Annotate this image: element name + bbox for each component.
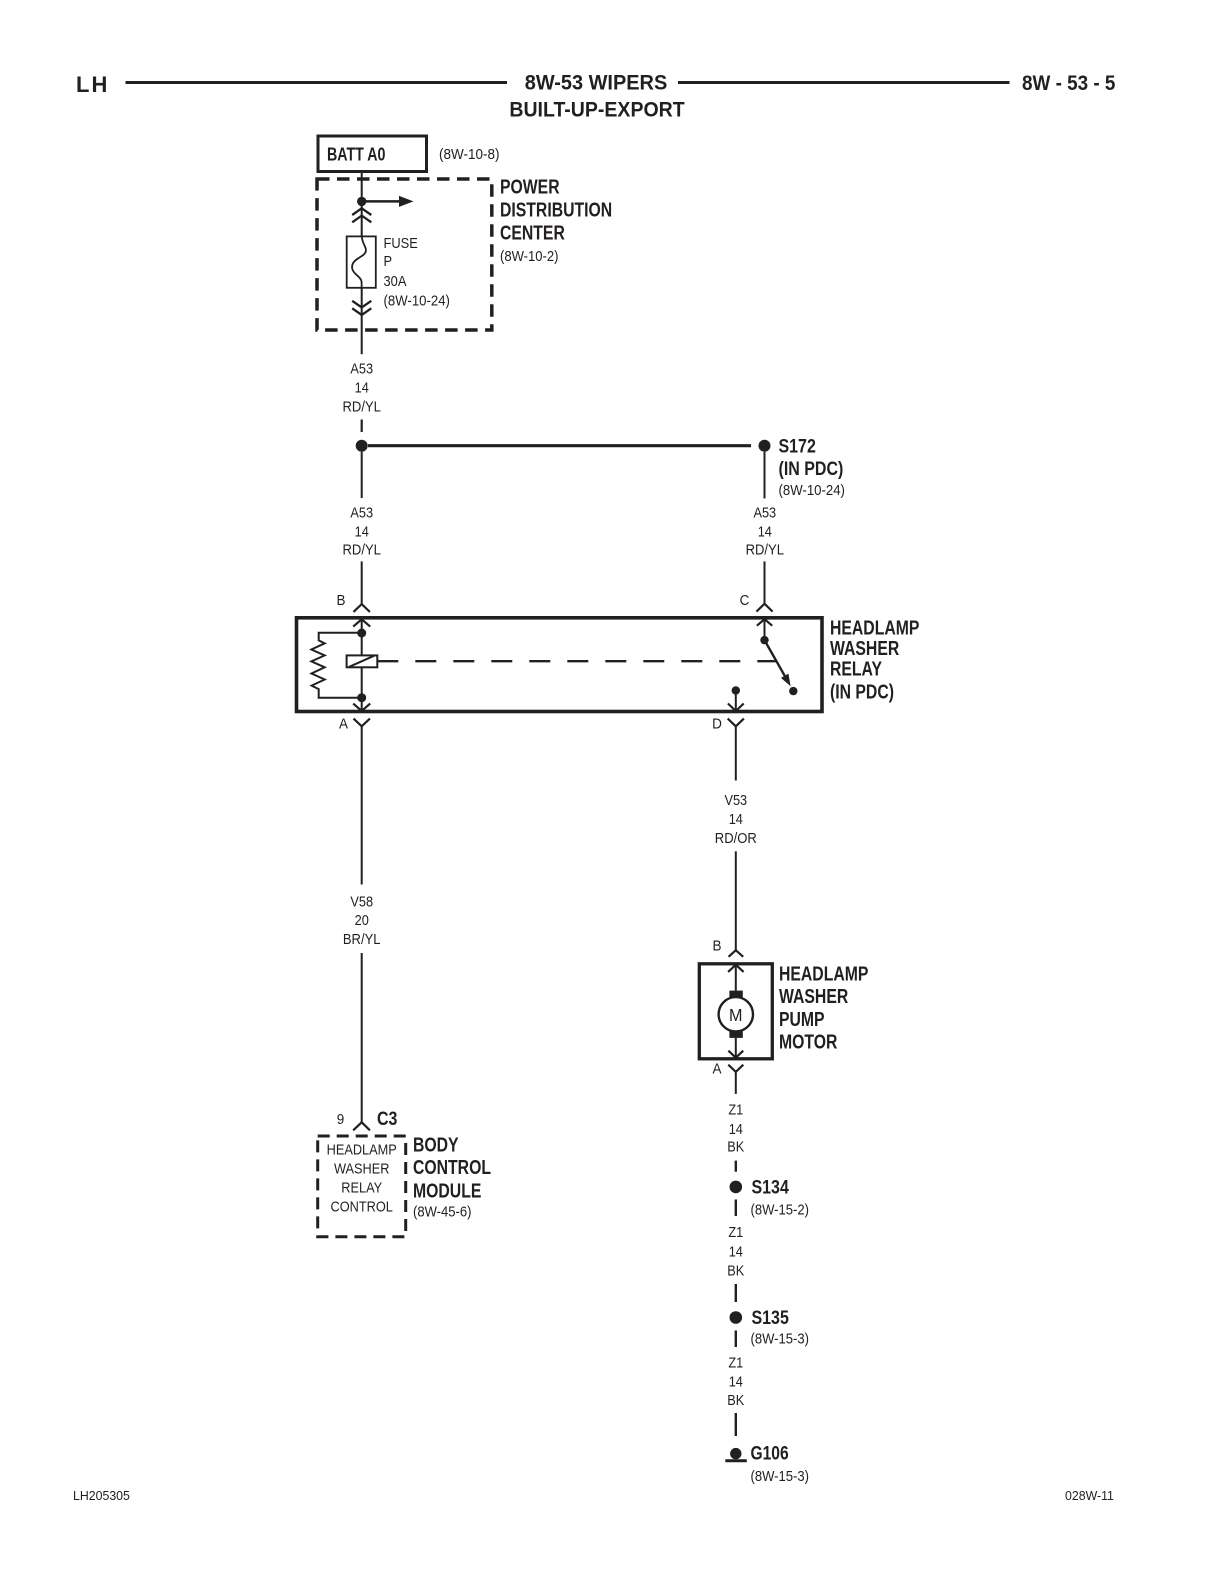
title page number 8W - 53 - 5 — [1022, 72, 1115, 95]
svg-text:HEADLAMP: HEADLAMP — [327, 1140, 397, 1157]
svg-text:(8W-15-3): (8W-15-3) — [751, 1467, 809, 1484]
motor pin A exit arrow — [728, 1038, 743, 1059]
svg-text:S135: S135 — [752, 1307, 789, 1329]
splice S172 labels — [779, 435, 845, 498]
relay pin A exit arrow — [353, 698, 370, 712]
svg-text:8W-53 WIPERS: 8W-53 WIPERS — [525, 71, 668, 95]
wire label A53 14 RD/YL (right) — [746, 504, 785, 558]
svg-text:FUSE: FUSE — [384, 234, 418, 251]
wire BATT A0 to fuse — [361, 172, 363, 237]
wire right drop from S172 — [764, 452, 766, 499]
wire stub below S135 — [735, 1331, 737, 1348]
svg-text:8W - 53 - 5: 8W - 53 - 5 — [1022, 72, 1115, 95]
svg-text:D: D — [712, 716, 722, 733]
wire label A53 14 RD/YL (left) — [342, 504, 381, 558]
svg-text:14: 14 — [729, 1243, 743, 1260]
headlamp washer pump motor box — [699, 964, 772, 1059]
wire to relay pin C — [764, 561, 766, 603]
svg-text:MOTOR: MOTOR — [779, 1030, 837, 1054]
headlamp washer relay box — [297, 618, 823, 712]
BCM name label — [413, 1132, 491, 1220]
wire to relay pin B — [361, 561, 363, 604]
svg-text:BODY: BODY — [413, 1132, 459, 1156]
svg-text:RD/YL: RD/YL — [746, 540, 785, 557]
wire motor A down — [735, 1072, 737, 1094]
svg-text:C: C — [740, 592, 750, 609]
svg-text:C3: C3 — [377, 1108, 398, 1130]
svg-text:RD/OR: RD/OR — [715, 829, 757, 846]
svg-text:S134: S134 — [752, 1176, 789, 1198]
svg-text:Z1: Z1 — [728, 1101, 743, 1118]
svg-text:(8W-15-3): (8W-15-3) — [751, 1330, 809, 1347]
svg-text:(8W-45-6): (8W-45-6) — [413, 1203, 471, 1220]
wire label V53 14 RD/OR — [715, 791, 757, 846]
svg-text:A53: A53 — [350, 359, 373, 376]
wire label Z1 14 BK (third) — [727, 1353, 745, 1408]
svg-text:CENTER: CENTER — [500, 220, 565, 244]
svg-text:DISTRIBUTION: DISTRIBUTION — [500, 197, 612, 221]
title rule left — [126, 81, 508, 84]
relay actuation dashed link — [377, 660, 776, 662]
relay name label — [830, 615, 919, 703]
svg-text:BATT A0: BATT A0 — [327, 145, 385, 165]
relay switch contact node — [789, 687, 797, 695]
node relay coil top — [357, 629, 366, 638]
svg-text:14: 14 — [758, 522, 772, 539]
wire stub below S134 — [735, 1200, 737, 1217]
svg-text:A53: A53 — [350, 504, 373, 521]
footer sheet code left — [73, 1489, 130, 1503]
fuse value labels FUSE P 30A (8W-10-24) — [384, 234, 450, 309]
node relay coil bottom — [357, 693, 366, 702]
svg-text:(8W-10-24): (8W-10-24) — [384, 292, 450, 309]
motor brush bottom — [729, 1031, 742, 1038]
svg-text:V58: V58 — [350, 892, 373, 909]
svg-text:028W-11: 028W-11 — [1065, 1489, 1114, 1503]
svg-text:WASHER: WASHER — [334, 1159, 389, 1176]
relay pin B entry arrow — [353, 618, 370, 633]
footer sheet code right — [1065, 1489, 1114, 1503]
motor brush top — [729, 991, 742, 998]
wire stub to G106 — [735, 1413, 737, 1436]
svg-text:Z1: Z1 — [728, 1353, 743, 1370]
motor M symbol — [719, 997, 753, 1031]
relay pin D node — [732, 686, 740, 694]
svg-text:BK: BK — [727, 1262, 745, 1279]
svg-text:M: M — [729, 1005, 742, 1025]
relay pin B connector — [336, 592, 369, 612]
feed arrow to other circuits — [362, 196, 414, 207]
wire to BCM pin 9 — [361, 953, 363, 1122]
motor pin A connector — [712, 1061, 743, 1078]
svg-text:S172: S172 — [779, 435, 816, 457]
motor pin B entry arrow — [728, 964, 744, 991]
PDC name label — [500, 174, 612, 264]
svg-text:RELAY: RELAY — [830, 657, 882, 681]
svg-text:30A: 30A — [384, 272, 408, 289]
wire to motor pin B — [735, 851, 737, 950]
battery feed box BATT A0 — [318, 136, 427, 172]
svg-text:PUMP: PUMP — [779, 1007, 825, 1031]
svg-text:POWER: POWER — [500, 174, 560, 198]
svg-text:A: A — [339, 716, 348, 733]
wire label V58 20 BR/YL — [343, 892, 381, 947]
connector chevrons in PDC (up) — [352, 208, 371, 222]
connector C3 pin 9 — [337, 1108, 398, 1131]
wire label Z1 14 BK (first) — [727, 1101, 745, 1155]
wire label A53 14 RD/YL (upper) — [342, 359, 381, 414]
svg-text:CONTROL: CONTROL — [413, 1155, 491, 1179]
relay pin D connector — [712, 716, 744, 733]
svg-text:BR/YL: BR/YL — [343, 930, 381, 947]
junction node in PDC — [357, 197, 366, 206]
wire relay A down — [361, 726, 363, 884]
page ref (8W-10-8) — [439, 147, 499, 164]
title 8W-53 WIPERS — [525, 71, 668, 95]
svg-text:LH205305: LH205305 — [73, 1489, 130, 1503]
ground G106 — [725, 1448, 747, 1461]
svg-text:RD/YL: RD/YL — [342, 397, 381, 414]
svg-text:14: 14 — [355, 522, 369, 539]
svg-text:B: B — [712, 938, 721, 955]
svg-text:(8W-15-2): (8W-15-2) — [751, 1201, 809, 1218]
wire coil top to bottom — [361, 633, 363, 698]
junction at S172 bus (left) — [356, 440, 368, 452]
svg-text:(IN PDC): (IN PDC) — [830, 679, 894, 703]
splice S172 — [759, 440, 771, 452]
svg-text:V53: V53 — [724, 791, 747, 808]
svg-text:(IN PDC): (IN PDC) — [779, 457, 844, 479]
title rule right — [678, 81, 1010, 84]
relay coil — [347, 655, 378, 667]
bus wire to S172 — [368, 444, 751, 447]
motor name label — [779, 961, 868, 1053]
svg-text:(8W-10-24): (8W-10-24) — [779, 481, 845, 498]
relay pin C entry arrow — [757, 618, 772, 640]
body control module dashed box (headlamp washer relay control) — [318, 1136, 406, 1237]
relay pin C connector — [740, 592, 773, 611]
svg-text:RD/YL: RD/YL — [342, 540, 381, 557]
svg-text:BK: BK — [727, 1391, 745, 1408]
svg-text:BUILT-UP-EXPORT: BUILT-UP-EXPORT — [509, 99, 685, 122]
relay switch blade with arrow — [761, 638, 795, 688]
svg-text:MODULE: MODULE — [413, 1178, 481, 1202]
wire stub to S135 — [735, 1284, 737, 1302]
svg-text:(8W-10-2): (8W-10-2) — [500, 247, 558, 264]
svg-text:CONTROL: CONTROL — [331, 1197, 394, 1214]
splice S134 labels — [751, 1176, 809, 1218]
power distribution center dashed box — [317, 179, 492, 330]
svg-text:20: 20 — [355, 911, 369, 928]
svg-text:(8W-10-8): (8W-10-8) — [439, 147, 499, 164]
svg-text:P: P — [384, 252, 393, 269]
svg-text:Z1: Z1 — [728, 1223, 743, 1240]
svg-text:A: A — [712, 1061, 721, 1078]
svg-text:14: 14 — [729, 1120, 743, 1137]
splice S134 — [730, 1181, 743, 1194]
ground G106 labels — [751, 1442, 809, 1485]
relay switch common node — [760, 636, 768, 644]
wire label Z1 14 BK (second) — [727, 1223, 745, 1279]
title BUILT-UP-EXPORT — [509, 99, 685, 122]
title LH — [76, 72, 109, 97]
svg-text:HEADLAMP: HEADLAMP — [779, 961, 868, 985]
svg-text:B: B — [336, 592, 345, 609]
svg-text:LH: LH — [76, 72, 109, 97]
motor pin B connector — [712, 938, 743, 957]
wire stub to S134 — [735, 1161, 737, 1172]
splice S135 — [730, 1311, 743, 1324]
relay pin A connector — [339, 716, 370, 733]
wire left drop from bus — [361, 452, 363, 498]
svg-text:14: 14 — [729, 810, 743, 827]
splice S135 labels — [751, 1307, 809, 1347]
connector chevrons in PDC (down) — [352, 301, 371, 315]
svg-text:14: 14 — [729, 1372, 743, 1389]
svg-text:14: 14 — [355, 378, 369, 395]
svg-text:A53: A53 — [753, 504, 776, 521]
wire relay D down — [735, 726, 737, 780]
svg-text:G106: G106 — [751, 1442, 789, 1464]
wire stub above splice — [361, 420, 363, 433]
relay pin D exit arrow — [728, 691, 744, 712]
svg-text:BK: BK — [727, 1138, 745, 1155]
wire fuse to PDC exit — [361, 288, 363, 354]
resistor (parallel with coil) — [311, 633, 361, 698]
fuse P 30A — [347, 236, 376, 287]
svg-text:9: 9 — [337, 1112, 345, 1129]
svg-text:WASHER: WASHER — [779, 984, 848, 1008]
svg-text:RELAY: RELAY — [341, 1178, 382, 1195]
